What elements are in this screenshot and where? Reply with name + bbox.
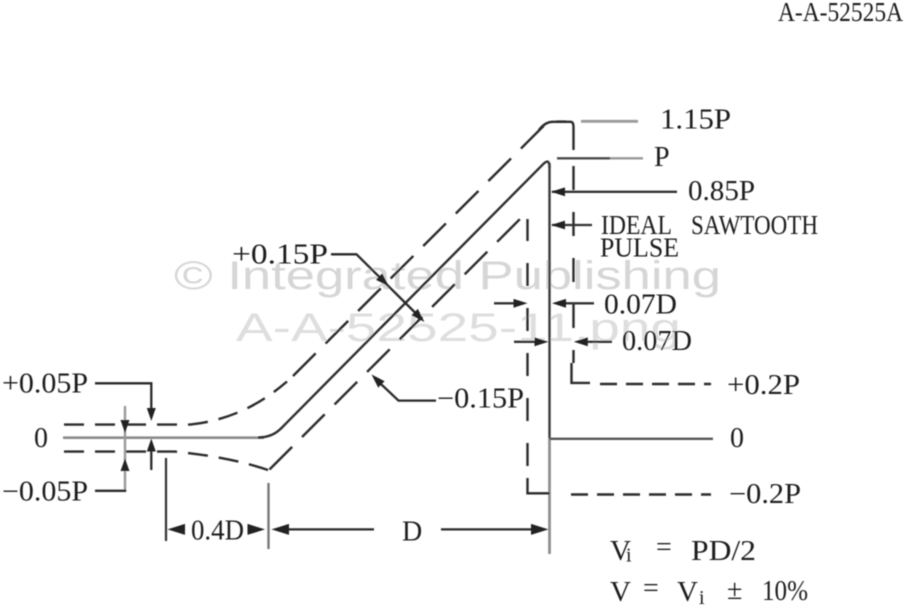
svg-text:D: D bbox=[402, 517, 422, 548]
svg-text:±: ± bbox=[727, 575, 742, 606]
svg-text:10%: 10% bbox=[762, 575, 808, 607]
svg-text:−0.2P: −0.2P bbox=[729, 479, 801, 510]
svg-text:V: V bbox=[610, 576, 631, 608]
svg-text:V: V bbox=[677, 576, 698, 608]
svg-text:i: i bbox=[699, 587, 705, 608]
svg-text:0.07D: 0.07D bbox=[604, 290, 677, 321]
svg-text:+0.15P: +0.15P bbox=[232, 240, 328, 271]
svg-text:0.4D: 0.4D bbox=[191, 516, 244, 547]
svg-text:0.85P: 0.85P bbox=[688, 176, 755, 207]
svg-text:+0.05P: +0.05P bbox=[2, 369, 88, 400]
svg-text:−0.15P: −0.15P bbox=[437, 384, 524, 415]
svg-text:P: P bbox=[654, 142, 670, 173]
svg-text:SAWTOOTH: SAWTOOTH bbox=[691, 210, 818, 240]
svg-text:−0.05P: −0.05P bbox=[2, 477, 88, 508]
svg-text:i: i bbox=[626, 545, 632, 567]
svg-text:=: = bbox=[643, 573, 659, 604]
svg-text:PD/2: PD/2 bbox=[691, 535, 756, 567]
svg-text:0: 0 bbox=[730, 423, 744, 454]
svg-text:1.15P: 1.15P bbox=[660, 105, 731, 136]
svg-text:0: 0 bbox=[34, 423, 48, 454]
svg-text:0.07D: 0.07D bbox=[622, 326, 692, 357]
svg-text:PULSE: PULSE bbox=[600, 233, 679, 263]
svg-text:=: = bbox=[656, 532, 672, 563]
svg-text:A-A-52525A: A-A-52525A bbox=[778, 0, 903, 27]
svg-text:+0.2P: +0.2P bbox=[727, 370, 800, 401]
